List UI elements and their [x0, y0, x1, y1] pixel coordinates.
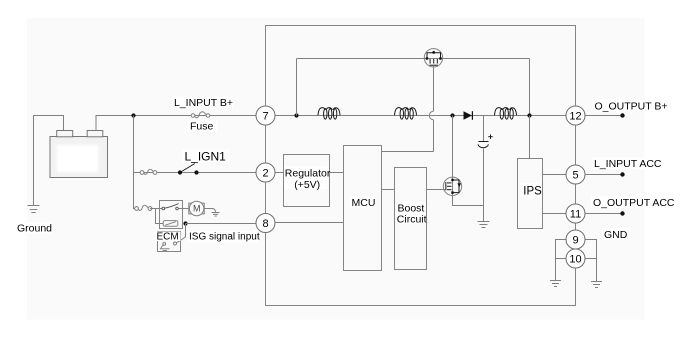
svg-text:9: 9 — [572, 235, 578, 247]
svg-text:Boost: Boost — [398, 202, 425, 214]
label L_INPUT ACC — [592, 157, 665, 170]
relay contact — [162, 204, 189, 210]
junction dot battery/branch — [131, 113, 135, 117]
ISG control unit outer box — [266, 26, 576, 306]
svg-text:Regulator: Regulator — [285, 167, 331, 179]
label Ground — [16, 222, 53, 234]
wire: node 9 right branch — [585, 240, 597, 282]
label L_IGN1 — [182, 150, 230, 164]
svg-text:ISG signal input: ISG signal input — [189, 232, 260, 243]
ECM connector pins — [160, 242, 177, 251]
label ISG signal input — [188, 231, 260, 243]
label Boost Circuit — [397, 202, 427, 226]
wire: IPS to node 5 — [543, 174, 567, 176]
wire: IPS to node 11 — [543, 213, 567, 215]
ignition switch — [178, 164, 199, 175]
junction dot relay coil output — [183, 221, 187, 225]
svg-text:11: 11 — [570, 209, 581, 221]
svg-text:Fuse: Fuse — [190, 121, 214, 133]
label Fuse — [188, 121, 217, 133]
inductor L3 — [495, 108, 517, 120]
wire: node8 to MCU — [275, 222, 344, 224]
svg-text:IPS: IPS — [523, 186, 542, 198]
svg-text:ECM: ECM — [157, 232, 179, 243]
MOSFET Q1 (high side) — [424, 49, 443, 67]
svg-text:L_INPUT B+: L_INPUT B+ — [174, 97, 233, 109]
label GND — [602, 228, 631, 241]
wire: regulator to MCU — [330, 172, 344, 174]
ground (left of 9/10) — [550, 281, 561, 287]
ground (capacitor) — [478, 222, 490, 228]
label MCU — [350, 197, 375, 210]
label IPS — [520, 183, 542, 198]
node 5 — [566, 165, 585, 184]
wire: MCU to boost — [382, 189, 395, 191]
svg-text:Ground: Ground — [17, 222, 52, 234]
svg-text:O_OUTPUT ACC: O_OUTPUT ACC — [593, 197, 675, 209]
svg-text:O_OUTPUT B+: O_OUTPUT B+ — [595, 101, 668, 113]
label L_INPUT B+ — [172, 97, 233, 110]
wire: boost to Q2 gate — [427, 189, 446, 191]
terminal dot 12 — [620, 113, 624, 117]
svg-text:5: 5 — [572, 170, 578, 182]
connector (ECM row) — [135, 205, 152, 210]
diode D1 — [464, 111, 473, 120]
wire: node 9 left branch — [556, 240, 567, 281]
wire: node 5 stub — [585, 174, 623, 176]
relay box — [160, 201, 183, 229]
svg-text:MCU: MCU — [352, 197, 376, 209]
main rail node7 to node12 — [275, 115, 566, 117]
svg-text:(+5V): (+5V) — [294, 179, 320, 191]
node 2 — [256, 163, 275, 182]
svg-text:L_IGN1: L_IGN1 — [185, 150, 227, 164]
connector (L_IGN1) — [140, 169, 157, 174]
Regulator box — [284, 155, 330, 207]
svg-text:2: 2 — [262, 168, 268, 180]
node 12 — [566, 106, 585, 125]
wire: Q1 gate down to MCU with hop — [382, 66, 434, 152]
label O_OUTPUT ACC — [591, 196, 675, 209]
wire: ISG signal to node 8 — [186, 223, 257, 225]
diagram panel — [27, 18, 645, 320]
svg-text:M: M — [193, 204, 201, 214]
wire: riser right — [529, 59, 531, 116]
svg-text:GND: GND — [604, 229, 628, 241]
ground (battery) — [28, 206, 40, 213]
MCU box — [344, 146, 382, 271]
wire: ECM row to relay — [150, 208, 163, 210]
ground (right of 9/10) — [591, 282, 602, 288]
svg-text:7: 7 — [262, 111, 268, 123]
label O_OUTPUT B+ — [593, 100, 669, 113]
fuse — [191, 112, 210, 118]
MOSFET Q2 (boost switch) — [443, 116, 461, 196]
wire: relay coil feed — [156, 209, 164, 224]
node 8 — [256, 214, 275, 233]
ground (motor) — [212, 213, 220, 217]
label ECM — [156, 232, 181, 243]
wire: Q2 source to ground rail — [453, 196, 484, 206]
terminal dot 5 — [620, 172, 624, 176]
svg-text:12: 12 — [569, 111, 581, 123]
svg-text:10: 10 — [569, 254, 581, 266]
wire: branch down from B+ — [134, 116, 137, 209]
wire: node 10 left branch — [556, 258, 567, 260]
svg-text:8: 8 — [262, 218, 268, 230]
node 7 — [256, 106, 275, 125]
top rail — [297, 58, 530, 60]
Boost box — [395, 168, 427, 270]
IPS box — [518, 159, 543, 229]
wire: node 12 stub — [585, 115, 623, 117]
battery — [50, 131, 108, 178]
node 9 — [566, 230, 585, 249]
wire: node2 to regulator — [275, 172, 284, 174]
node 11 — [566, 204, 585, 223]
wire: node 10 right branch — [585, 258, 597, 260]
junction dot L3/IPS — [527, 113, 531, 117]
label Regulator — [285, 166, 331, 191]
capacitor C1 — [478, 116, 493, 222]
wire: node 11 stub — [585, 213, 623, 215]
svg-text:Circuit: Circuit — [397, 214, 427, 226]
wire: motor to ground — [204, 209, 215, 213]
ECM connector box — [158, 232, 181, 252]
node 10 — [566, 249, 585, 268]
motor M — [189, 201, 204, 215]
wire: rail to IPS top — [529, 116, 531, 159]
terminal dot 11 — [620, 211, 624, 215]
wire: battery positive to node 7 — [96, 116, 256, 131]
wire: L_IGN1 row — [134, 172, 257, 174]
wire: riser left — [296, 59, 298, 116]
wire: down to ECM pin — [177, 224, 186, 243]
inductor L2 — [395, 108, 417, 120]
inductor L1 — [318, 108, 340, 120]
junction dot top-left rail — [294, 113, 298, 117]
svg-text:L_INPUT ACC: L_INPUT ACC — [594, 158, 662, 170]
wire: battery left lead to ground — [34, 116, 64, 206]
junction dot Q2 drain — [450, 113, 454, 117]
relay coil — [163, 221, 178, 227]
